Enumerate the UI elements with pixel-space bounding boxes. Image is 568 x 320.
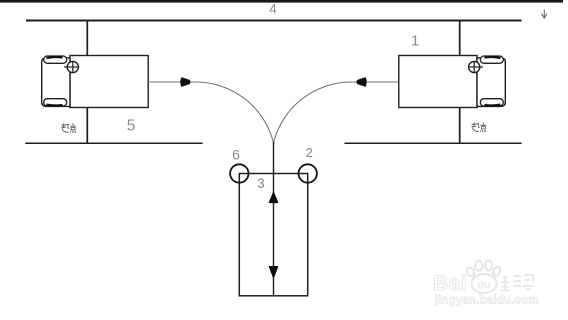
svg-text:jingyan.baidu.com: jingyan.baidu.com	[434, 295, 539, 307]
svg-text:1: 1	[411, 33, 419, 50]
svg-text:6: 6	[232, 147, 240, 163]
svg-text:2: 2	[306, 145, 313, 160]
svg-text:3: 3	[257, 176, 265, 191]
svg-text:Bai: Bai	[433, 272, 467, 295]
svg-text:du: du	[477, 280, 490, 292]
svg-text:4: 4	[269, 1, 277, 16]
svg-text:5: 5	[127, 118, 136, 135]
